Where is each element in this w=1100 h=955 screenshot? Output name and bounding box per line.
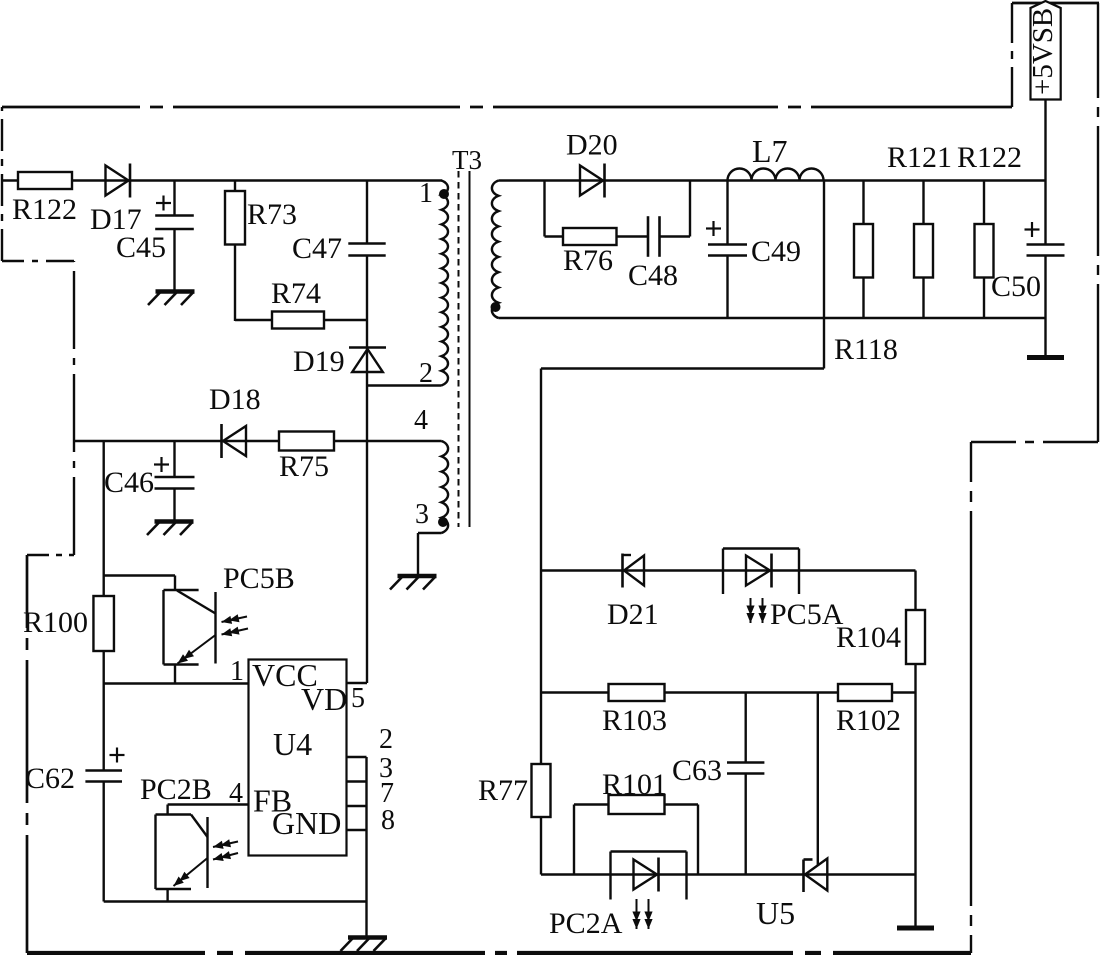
svg-text:U4: U4 (273, 726, 312, 762)
PC2A light arrow 1 (636, 899, 638, 929)
PC2B light arrow 1 (213, 842, 238, 848)
wire C50 to ground (1044, 256, 1046, 357)
svg-text:PC2B: PC2B (140, 773, 212, 806)
wire PC5B emitter drop (174, 665, 176, 684)
svg-text:R104: R104 (836, 621, 901, 654)
wire transformer pin 3 stub (418, 532, 442, 534)
capacitor C63 (727, 763, 764, 774)
capacitor C45 (electrolytic) (155, 216, 194, 230)
PC2A light arrow 2 (648, 899, 650, 929)
svg-text:R101: R101 (602, 768, 667, 801)
wire U4 pin 2 stub (347, 756, 367, 758)
svg-text:R122: R122 (12, 193, 77, 226)
svg-text:8: 8 (381, 805, 395, 836)
wire R101 loop left (573, 805, 575, 875)
wire C45 to ground (173, 229, 175, 291)
resistor R103 (609, 684, 665, 701)
polarity dot pin 1 (439, 189, 449, 199)
capacitor C49 (electrolytic) (708, 245, 747, 256)
svg-text:C50: C50 (991, 270, 1041, 303)
resistor R101 (609, 795, 665, 814)
resistor R102 (838, 684, 892, 701)
svg-text:PC5A: PC5A (770, 598, 844, 631)
diode D19 (zener to pin2) (352, 349, 383, 372)
svg-text:R74: R74 (271, 277, 321, 310)
wire R77 chain (540, 571, 542, 765)
wire R121 top (922, 181, 924, 225)
svg-text:4: 4 (229, 778, 243, 809)
wire R104 bottom (914, 664, 916, 693)
wire R103/R102 line (541, 691, 916, 693)
diode D20 (580, 166, 603, 196)
svg-text:R73: R73 (247, 198, 297, 231)
plus sign of C62 (110, 754, 125, 756)
resistor R73 (225, 191, 245, 245)
svg-text:C46: C46 (104, 466, 154, 499)
plus sign of C46 (154, 463, 169, 465)
wire C46 to ground (173, 489, 175, 522)
boundary right riser to top edge (1011, 3, 1013, 107)
optocoupler PC5B phototransistor (164, 589, 199, 591)
plus sign of C49 (706, 227, 721, 229)
wire R101 loop right (697, 805, 699, 875)
ground below C45 (156, 289, 195, 293)
svg-text:VD: VD (301, 681, 347, 717)
svg-text:C47: C47 (292, 232, 342, 265)
svg-text:R76: R76 (563, 244, 613, 277)
capacitor C50 (electrolytic) (1027, 245, 1065, 256)
wire R74 right (324, 319, 367, 321)
resistor R76 (563, 228, 617, 245)
capacitor C46 (electrolytic) (155, 477, 195, 489)
wire U4 ground pins vertical (365, 757, 367, 936)
resistor R74 (272, 312, 324, 329)
svg-text:D20: D20 (566, 129, 618, 162)
wire snubber branch down (543, 181, 545, 237)
svg-text:3: 3 (415, 499, 429, 530)
wire C63 bottom (745, 774, 747, 875)
svg-text:C45: C45 (116, 231, 166, 264)
wire transformer pin 2 stub (367, 384, 442, 386)
capacitor C62 (electrolytic) (85, 771, 122, 782)
net flag +5VSB (1031, 1, 1061, 100)
wire R77 bottom (540, 817, 542, 875)
wire C50/+5VSB vertical (1044, 100, 1046, 245)
wire R121 bottom (922, 278, 924, 319)
wire R118 bottom (862, 278, 864, 319)
resistor R122 (horizontal, input) (18, 172, 72, 189)
PC2B light arrow 2 (213, 853, 238, 860)
wire C49 top (726, 181, 728, 245)
wire U4 pin 7 stub (347, 805, 367, 807)
svg-text:4: 4 (414, 405, 428, 436)
boundary step at left (27, 554, 74, 556)
optocoupler PC5A LED (746, 556, 770, 586)
wire C46 top (173, 441, 175, 477)
wire R76 to C48 (617, 235, 649, 237)
wire U5 reference (817, 693, 819, 867)
wire PC5B collector drop (174, 576, 176, 591)
PC5B light arrow 1 (222, 617, 248, 623)
shunt regulator U5 (802, 860, 805, 893)
wire bottom return (pin1 loop) (104, 900, 367, 902)
polarity dot pin 3 (438, 517, 448, 527)
wire C47/D19 branch from rail to U4 pin 5 (366, 181, 368, 684)
optocoupler PC2A LED bracket (611, 850, 687, 852)
boundary right edge vertical (1097, 3, 1099, 442)
diode D21 (zener) (624, 556, 644, 586)
svg-text:D18: D18 (209, 383, 261, 416)
wire auxiliary supply line (boundary to T3 pin 4) (74, 440, 442, 442)
svg-text:R103: R103 (602, 704, 667, 737)
svg-text:PC2A: PC2A (549, 907, 623, 940)
svg-text:U5: U5 (756, 895, 795, 931)
svg-text:C48: C48 (628, 259, 678, 292)
wire C48 up to rail (660, 235, 691, 237)
plus sign of C45 (156, 202, 171, 204)
wire right vertical to ground (914, 693, 916, 926)
optocoupler PC2A LED (634, 860, 658, 890)
wire PC2B emitter drop (166, 889, 168, 902)
PC5A light arrow 2 (762, 598, 764, 623)
resistor R118 (854, 224, 873, 278)
transformer core line (solid) (469, 171, 471, 527)
resistor R77 (532, 764, 551, 817)
wire R74 left (235, 319, 272, 321)
svg-text:R77: R77 (478, 774, 528, 807)
svg-text:L7: L7 (752, 133, 788, 169)
wire U4 pin 3 stub (347, 780, 367, 782)
svg-text:C62: C62 (25, 762, 75, 795)
wire secondary ground rail (499, 317, 1046, 319)
wire feedback bottom line (541, 873, 916, 875)
boundary bottom thick dash-dot line (27, 951, 971, 955)
diode D17 (106, 166, 129, 196)
svg-text:C49: C49 (751, 235, 801, 268)
svg-text:PC5B: PC5B (223, 562, 295, 595)
wire C49 bottom (726, 256, 728, 319)
svg-text:+5VSB: +5VSB (1027, 8, 1059, 95)
transformer T3 auxiliary winding (pins 4-3) (442, 441, 449, 533)
wire output sense to D21 line (540, 369, 542, 571)
wire R100 bottom to pin1 node (102, 651, 104, 684)
wire C63 top (745, 693, 747, 763)
wire VCC node vertical (R100 chain) (102, 441, 104, 596)
svg-text:R121: R121 (887, 141, 952, 174)
wire R122 bottom (983, 278, 985, 319)
resistor R100 (93, 596, 114, 651)
transformer core line (dashed) (458, 171, 460, 527)
wire snubber to R76 (545, 235, 564, 237)
diode D18 (223, 426, 246, 456)
wire D21/PC5A line (541, 569, 916, 571)
resistor R104 (906, 610, 925, 664)
wire R73 top (234, 181, 236, 192)
polarity dot secondary (491, 302, 501, 312)
boundary top-right edge line (1012, 2, 1099, 5)
wire R122 top (983, 181, 985, 225)
svg-text:2: 2 (379, 724, 393, 755)
wire R73 bottom to R74 (234, 245, 236, 322)
resistor R121 (914, 224, 933, 278)
boundary mid-left vertical (73, 261, 75, 555)
boundary lower-left vertical (26, 555, 29, 953)
wire PC2B collector drop (166, 805, 168, 815)
svg-text:2: 2 (419, 358, 433, 389)
svg-text:GND: GND (272, 805, 341, 841)
svg-text:R75: R75 (279, 450, 329, 483)
svg-text:R100: R100 (23, 606, 88, 639)
svg-text:D19: D19 (293, 345, 345, 378)
svg-text:1: 1 (419, 178, 433, 209)
transformer T3 primary winding (pins 1-2) (442, 181, 449, 386)
wire pin 3 to ground (417, 533, 419, 575)
wire R101 loop top left (574, 803, 609, 805)
wire output sense drop (823, 181, 825, 369)
wire C62 top (102, 684, 104, 771)
wire C62 bottom (102, 782, 104, 902)
wire U4 pin 5 (VD) (347, 682, 368, 684)
ground bar bottom right (897, 926, 934, 931)
boundary lower-right vertical (970, 442, 972, 953)
capacitor C48 (648, 216, 660, 257)
optocoupler PC2B phototransistor (156, 813, 192, 815)
wire U4 pin 1 (VCC) (104, 682, 249, 684)
svg-text:D21: D21 (607, 598, 659, 631)
boundary step at right (971, 441, 1098, 443)
PC5A light arrow 1 (750, 598, 752, 623)
svg-text:R118: R118 (834, 333, 898, 366)
PC5B light arrow 2 (222, 629, 249, 635)
wire PC5B collector link horizontal (104, 574, 175, 576)
plus sign of C50 (1025, 228, 1040, 230)
wire AC input rail to transformer pin 1 (2, 179, 442, 181)
ground below C46 (155, 519, 194, 523)
ground below U4 (348, 935, 387, 939)
wire secondary output rail (499, 179, 1046, 181)
wire C45 top (173, 181, 175, 216)
svg-text:T3: T3 (452, 145, 482, 175)
wire R104 top (914, 571, 916, 611)
svg-text:R122: R122 (957, 141, 1022, 174)
resistor R75 (279, 432, 334, 451)
capacitor C47 (348, 244, 385, 256)
boundary upper-left step (2, 260, 74, 262)
svg-text:1: 1 (230, 656, 244, 687)
inductor L7 (728, 169, 824, 181)
wire U4 pin 4 (FB) (168, 803, 249, 805)
svg-text:R102: R102 (836, 704, 901, 737)
hot/cold isolation boundary top dash-dot line (2, 106, 1012, 109)
resistor R122 (output) (975, 224, 994, 278)
optocoupler PC5A LED bracket (723, 547, 799, 549)
wire U4 pin 8 stub (347, 829, 367, 831)
ground below T3 pin 3 (398, 574, 437, 578)
wire R101 loop top right (665, 803, 699, 805)
boundary upper-left vertical (1, 107, 3, 261)
transformer T3 secondary winding (492, 181, 499, 319)
wire R118 top (862, 181, 864, 225)
op-amp U4 (power IC) body (249, 660, 347, 856)
svg-text:C63: C63 (672, 754, 722, 787)
wire output sense horizontal (541, 367, 824, 369)
svg-text:5: 5 (351, 683, 365, 714)
ground bar below C50 (1027, 355, 1064, 360)
